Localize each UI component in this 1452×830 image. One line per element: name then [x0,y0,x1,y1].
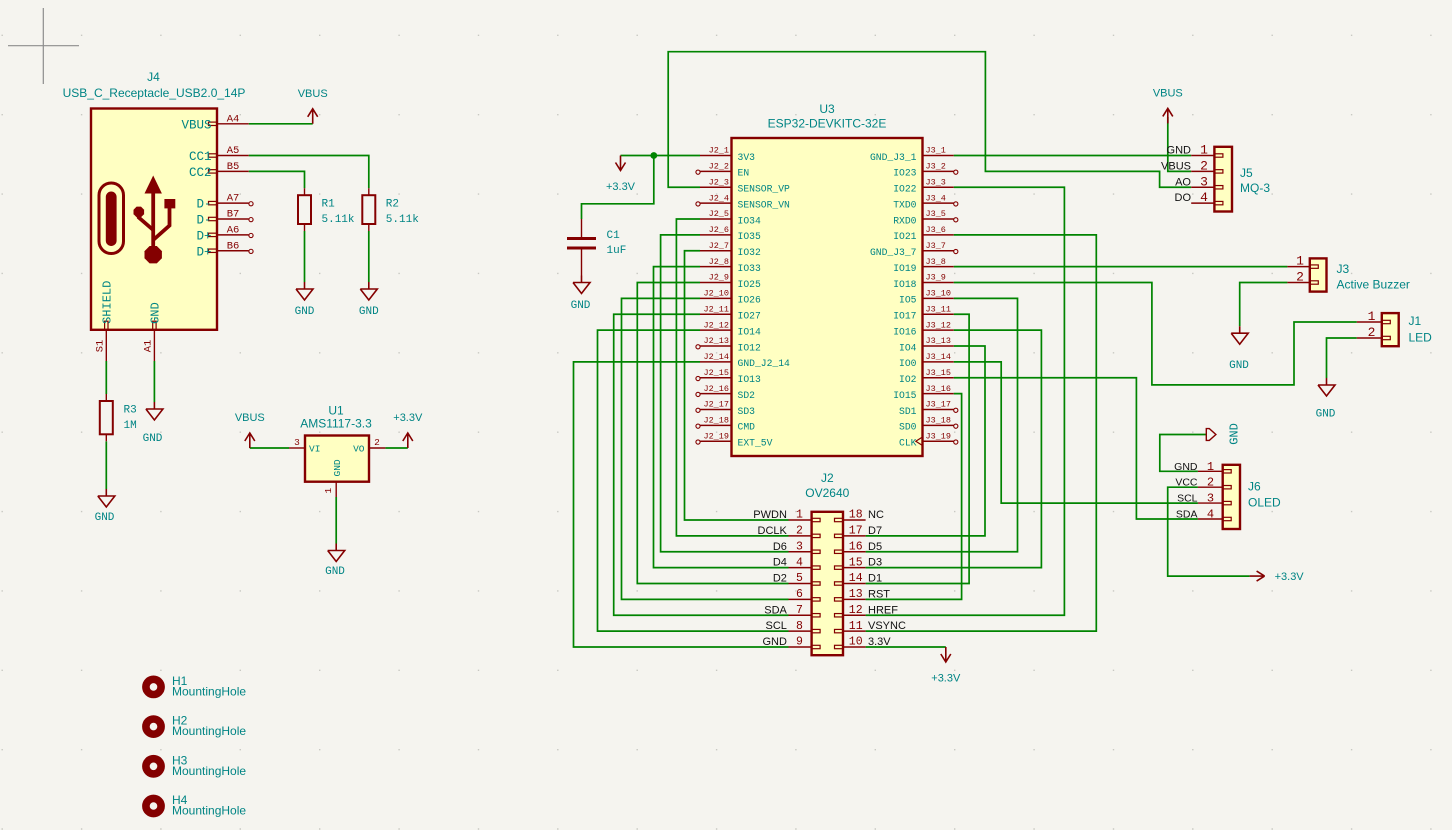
svg-text:J2_11: J2_11 [703,304,729,314]
U3 pin J3_6 IO21 [923,234,954,236]
svg-text:1: 1 [1368,309,1376,324]
J2 pin 4 D4 [789,567,812,569]
U3 pin J2_12 IO14 [700,329,732,331]
svg-text:GND: GND [1174,461,1198,473]
svg-text:EXT_5V: EXT_5V [738,438,773,449]
svg-text:R1: R1 [322,199,336,211]
svg-text:1: 1 [796,509,803,522]
wire OLED VCC to +3.3V [1168,487,1250,576]
svg-text:4: 4 [1207,508,1214,522]
svg-text:J3_18: J3_18 [926,416,952,426]
svg-text:J3_1: J3_1 [926,146,946,156]
wire S1 to R3 [105,361,107,394]
svg-text:D2: D2 [773,573,787,585]
svg-text:2: 2 [1200,158,1208,173]
svg-text:RXD0: RXD0 [893,215,916,226]
svg-text:OV2640: OV2640 [805,486,849,500]
svg-text:J4: J4 [147,70,160,84]
wire IO4 to OV2640 D7 [866,346,985,536]
U3 pin J3_7 GND_J3_7 [923,250,954,252]
wire A1 to GND [153,361,155,402]
svg-text:GND_J3_1: GND_J3_1 [870,152,917,163]
U3 pin J3_2 IO23 [923,170,954,172]
svg-text:14: 14 [849,572,863,585]
U3 pin J3_5 RXD0 [923,218,954,220]
svg-text:J2_15: J2_15 [703,368,729,378]
J2 pin 13 RST [843,598,866,600]
svg-text:10: 10 [849,636,863,649]
svg-text:B7: B7 [227,209,240,221]
svg-text:MountingHole: MountingHole [172,764,246,778]
svg-text:15: 15 [849,556,863,569]
svg-text:J3_2: J3_2 [926,162,946,172]
svg-text:J2: J2 [821,471,834,485]
svg-text:IO2: IO2 [899,374,917,385]
svg-text:J2_9: J2_9 [709,273,729,283]
svg-text:LED: LED [1409,331,1433,345]
U3 pin J3_13 IO4 [923,345,954,347]
mounting hole H2 [146,719,161,734]
svg-text:VSYNC: VSYNC [868,620,906,632]
U3 pin J2_13 IO12 [700,345,732,347]
svg-text:8: 8 [796,620,803,633]
svg-text:CLK: CLK [899,438,917,449]
U3 pin J2_5 IO34 [700,218,732,220]
resistor R2 5.11k [368,188,370,231]
svg-text:J3_11: J3_11 [926,304,952,314]
U3 pin J2_2 EN [700,170,732,172]
svg-text:J3_7: J3_7 [926,241,946,251]
connector J2 OV2640 [812,512,843,655]
svg-text:J2_18: J2_18 [703,416,729,426]
svg-text:J3_16: J3_16 [926,384,952,394]
svg-text:J3_13: J3_13 [926,336,952,346]
svg-text:GND_J3_7: GND_J3_7 [870,247,917,258]
svg-text:IO25: IO25 [738,279,761,290]
svg-text:IO23: IO23 [893,168,916,179]
svg-text:VBUS: VBUS [298,88,328,100]
svg-text:VBUS: VBUS [181,118,211,132]
svg-text:IO16: IO16 [893,326,916,337]
svg-text:IO5: IO5 [899,295,917,306]
svg-text:17: 17 [849,525,863,538]
J4 usb-c pill icon [99,183,124,254]
U3 pin J2_15 IO13 [700,377,732,379]
J2 pin 8 SCL [789,630,812,632]
J4 pin A5 CC1 [217,155,249,157]
U3 pin J2_11 IO27 [700,313,732,315]
resistor R1 5.11k [304,188,306,231]
svg-text:PWDN: PWDN [753,509,787,521]
svg-text:D+: D+ [196,245,211,259]
svg-text:D+: D+ [196,229,211,243]
svg-text:GND: GND [148,302,162,324]
wire IO17 to OV2640 D1 [866,314,970,583]
svg-text:1: 1 [323,488,334,494]
wire 3V3 junction to C1 [582,156,654,220]
svg-text:3: 3 [1207,492,1214,506]
svg-text:5.11k: 5.11k [386,214,419,226]
wire GND_J2_14 to OV2640 GND [574,362,789,647]
U3 pin J3_9 IO18 [923,282,954,284]
global label GND at OLED [1206,429,1216,441]
power VBUS at J5 [1163,108,1173,123]
svg-text:GND: GND [1229,360,1249,372]
U3 pin J2_17 SD3 [700,409,732,411]
J4 pin S1 SHIELD [105,330,107,361]
svg-text:IO27: IO27 [738,311,761,322]
svg-text:J2_1: J2_1 [709,146,729,156]
J4 usb trident icon [139,186,170,255]
J2 pin 5 D2 [789,583,812,585]
svg-text:VBUS: VBUS [1161,160,1191,172]
svg-text:MountingHole: MountingHole [172,724,246,738]
J2 pin 7 SDA [789,614,812,616]
U1 pin 3 VI [289,447,305,449]
wire IO0 to OLED SCL [954,362,1198,503]
svg-text:EN: EN [738,168,750,179]
ground below R3 [98,489,115,507]
svg-text:9: 9 [796,636,803,649]
U3 pin J2_10 IO26 [700,297,732,299]
svg-text:IO12: IO12 [738,342,761,353]
svg-text:J5: J5 [1240,166,1253,180]
svg-text:VO: VO [353,443,365,454]
U3 pin J2_1 3V3 [700,155,732,157]
wire CC1 to R2 [249,156,369,189]
J6 pin 4 SDA [1198,518,1223,520]
J2 pin 1 PWDN [789,519,812,521]
svg-text:U3: U3 [819,102,835,116]
svg-text:GND: GND [359,306,379,318]
svg-text:18: 18 [849,509,863,522]
svg-text:OLED: OLED [1248,496,1281,510]
svg-text:SD0: SD0 [899,422,917,433]
U3 pin J3_1 GND_J3_1 [923,155,954,157]
svg-text:VI: VI [309,443,320,454]
power +3.3V at U1 VO [403,433,413,448]
svg-text:GND: GND [1228,423,1242,445]
svg-text:B5: B5 [227,161,240,173]
ground below LED [1318,378,1335,396]
U1 pin 2 VO [369,447,385,449]
svg-text:+3.3V: +3.3V [606,181,636,193]
wire +3.3V to ESP32 3V3 [621,155,701,157]
svg-text:CC1: CC1 [189,150,212,164]
svg-text:SDA: SDA [764,604,787,616]
wire IO15 to OV2640 RST [866,394,962,600]
svg-text:J3_15: J3_15 [926,368,952,378]
regulator U1 AMS1117-3.3 [305,436,369,482]
wire IO32 to OV2640 PWDN [685,251,789,520]
connector J3 Active Buzzer [1310,258,1327,291]
J5 pin 2 VBUS [1191,170,1214,172]
svg-text:J2_8: J2_8 [709,257,729,267]
svg-text:DCLK: DCLK [758,525,788,537]
U3 pin J2_6 IO35 [700,234,732,236]
power +3.3V at OLED VCC [1250,571,1265,581]
svg-text:RST: RST [868,588,890,600]
svg-text:11: 11 [849,620,863,633]
U3 pin J3_8 IO19 [923,266,954,268]
U3 pin J2_9 IO25 [700,282,732,284]
svg-text:VBUS: VBUS [235,412,265,424]
svg-text:GND: GND [325,566,345,578]
svg-text:IO17: IO17 [893,311,916,322]
svg-text:J3_8: J3_8 [926,257,946,267]
svg-text:J1: J1 [1409,314,1422,328]
wire IO25 to OV2640 D2 [637,283,788,584]
J2 pin 9 GND [789,646,812,648]
svg-text:A6: A6 [227,224,240,236]
svg-text:GND: GND [762,636,787,648]
svg-text:D1: D1 [868,573,882,585]
svg-text:TXD0: TXD0 [893,199,916,210]
svg-text:IO22: IO22 [893,184,916,195]
wire GND_J3_1 to J5 pin1 [954,155,1191,157]
svg-text:3: 3 [1200,174,1208,189]
svg-text:J3_14: J3_14 [926,352,952,362]
svg-text:IO14: IO14 [738,326,761,337]
svg-text:+3.3V: +3.3V [931,673,961,685]
svg-text:2: 2 [1368,325,1376,340]
ground below C1 [573,276,590,294]
connector J5 MQ-3 [1214,147,1232,212]
svg-text:1: 1 [1207,460,1214,474]
wire CC2 to R1 [249,171,305,188]
U3 pin J2_8 IO33 [700,266,732,268]
wire IO34 to OV2640 DCLK [676,219,788,536]
svg-text:3: 3 [796,540,803,553]
U1 pin 1 GND [335,482,337,497]
mounting hole H1 [146,679,161,694]
svg-text:USB_C_Receptacle_USB2.0_14P: USB_C_Receptacle_USB2.0_14P [63,86,246,100]
J1 pin 2 [1357,337,1382,339]
svg-text:GND: GND [1316,409,1336,421]
connector J1 LED [1382,313,1399,346]
U3 pin J3_14 IO0 [923,361,954,363]
J4 pin B5 CC2 [217,170,249,172]
svg-text:IO34: IO34 [738,215,761,226]
wire VBUS to U1 VI [250,447,289,449]
svg-text:1: 1 [1200,143,1208,158]
svg-text:2: 2 [374,437,380,448]
svg-text:J3_9: J3_9 [926,273,946,283]
svg-text:J3_6: J3_6 [926,225,946,235]
svg-text:13: 13 [849,588,863,601]
svg-text:VCC: VCC [1175,477,1198,489]
wire R3 to GND [105,441,107,489]
svg-text:2: 2 [1296,270,1304,285]
svg-text:4: 4 [1200,190,1208,205]
svg-text:J2_3: J2_3 [709,177,729,187]
power VBUS at U1 VI [245,433,255,448]
svg-text:VBUS: VBUS [1153,87,1183,99]
svg-text:IO18: IO18 [893,279,916,290]
svg-text:SENSOR_VN: SENSOR_VN [738,199,791,210]
wire R2 to GND [368,231,370,282]
svg-text:J3_4: J3_4 [926,193,946,203]
svg-text:MountingHole: MountingHole [172,685,246,699]
svg-text:D-: D- [196,214,211,228]
svg-text:SDA: SDA [1176,509,1198,521]
J4 pin A7 D- [217,202,249,204]
svg-text:GND: GND [571,300,591,312]
svg-text:A4: A4 [227,113,240,125]
svg-text:SHIELD: SHIELD [100,281,114,324]
svg-text:7: 7 [796,604,803,617]
U3 pin J3_16 IO15 [923,393,954,395]
J3 pin 1 [1287,266,1309,268]
svg-text:IO19: IO19 [893,263,916,274]
wire SENSOR_VP to J5 AO [668,52,1191,188]
svg-text:IO32: IO32 [738,247,761,258]
svg-text:R3: R3 [124,405,137,417]
svg-text:C1: C1 [607,230,621,242]
J2 pin 12 HREF [843,614,866,616]
wire R1 to GND [304,231,306,282]
svg-text:5: 5 [796,572,803,585]
wire IO5 to OV2640 D5 [866,298,1018,551]
U3 pin J3_4 TXD0 [923,202,954,204]
J4 pin A4 VBUS [217,123,249,125]
svg-text:IO33: IO33 [738,263,761,274]
svg-text:MQ-3: MQ-3 [1240,181,1270,195]
wire IO33 to OV2640 D4 [654,267,789,568]
ground below R1 [296,282,313,300]
J4 pin B7 D- [217,218,249,220]
svg-text:J3_12: J3_12 [926,320,952,330]
wire IO27 to OV2640 SDA [614,314,789,615]
wire IO16 to OV2640 D3 [866,330,1042,568]
wire OLED GND to label [1160,435,1207,472]
wire U1 VO to +3.3V [385,447,407,449]
ground below R2 [360,282,377,300]
svg-text:GND: GND [295,306,315,318]
svg-text:J3_5: J3_5 [926,209,946,219]
capacitor C1 1uF [581,219,583,276]
J6 pin 3 SCL [1198,502,1223,504]
svg-text:SCL: SCL [765,620,786,632]
svg-text:D4: D4 [773,557,787,569]
wire IO35 to OV2640 D6 [661,235,789,552]
svg-text:S1: S1 [94,340,106,353]
svg-text:IO35: IO35 [738,231,761,242]
svg-text:+3.3V: +3.3V [393,412,423,424]
svg-text:HREF: HREF [868,604,898,616]
svg-text:J2_4: J2_4 [709,193,729,203]
svg-text:1M: 1M [124,420,137,432]
J3 pin 2 [1287,282,1309,284]
svg-text:J2_19: J2_19 [703,431,729,441]
U3 pin J2_16 SD2 [700,393,732,395]
svg-text:J3_19: J3_19 [926,431,952,441]
svg-text:SENSOR_VP: SENSOR_VP [738,184,791,195]
svg-text:J2_7: J2_7 [709,241,729,251]
svg-text:16: 16 [849,540,863,553]
svg-text:GND: GND [143,433,163,445]
svg-text:R2: R2 [386,199,399,211]
connector J6 OLED [1223,465,1240,529]
svg-text:U1: U1 [328,404,344,418]
power +3.3V at ESP32 3V3 [616,156,626,171]
ic U3 ESP32-DEVKITC-32E [732,138,923,456]
svg-text:MountingHole: MountingHole [172,804,246,818]
J4 pin A6 D+ [217,234,249,236]
svg-text:IO0: IO0 [899,358,917,369]
svg-text:J2_16: J2_16 [703,384,729,394]
svg-text:Active Buzzer: Active Buzzer [1337,278,1410,292]
svg-text:AO: AO [1175,176,1191,188]
J5 pin 4 DO [1191,202,1214,204]
J2 pin 16 D5 [843,551,866,553]
svg-text:IO21: IO21 [893,231,916,242]
J2 pin 6 NC [789,598,812,600]
power VBUS at J4 [308,109,318,124]
ground below buzzer [1231,326,1248,344]
U3 pin J3_17 SD1 [923,409,954,411]
J2 pin 2 DCLK [789,535,812,537]
svg-text:4: 4 [796,556,803,569]
svg-text:2: 2 [1207,476,1214,490]
svg-text:3: 3 [294,437,300,448]
J2 pin 18 NC [843,519,866,521]
svg-text:IO13: IO13 [738,374,761,385]
wire IO26 to OV2640 pin6 [622,298,789,599]
U3 pin J2_3 SENSOR_VP [700,186,732,188]
svg-text:6: 6 [796,588,803,601]
power +3.3V at OV2640 pin10 [941,647,951,662]
svg-text:GND_J2_14: GND_J2_14 [738,358,791,369]
U3 pin J3_11 IO17 [923,313,954,315]
J2 pin 3 D6 [789,551,812,553]
svg-text:IO15: IO15 [893,390,916,401]
svg-text:SD3: SD3 [738,406,756,417]
U3 pin J3_19 CLK [923,440,954,442]
ground below U1 [328,544,345,562]
U3 pin J3_18 SD0 [923,424,954,426]
J2 pin 14 D1 [843,583,866,585]
svg-text:J2_10: J2_10 [703,289,729,299]
wire IO14 to OV2640 SCL [598,330,789,631]
svg-text:D6: D6 [773,541,787,553]
svg-text:D-: D- [196,198,211,212]
svg-text:J2_13: J2_13 [703,336,729,346]
svg-text:GND: GND [95,512,115,524]
svg-text:SD1: SD1 [899,406,917,417]
wire IO2 to OLED SDA [954,378,1198,519]
wire IO19 to buzzer pin1 [954,266,1288,268]
svg-text:A1: A1 [142,340,154,353]
junction 3V3 node [650,152,657,159]
svg-text:J3_17: J3_17 [926,400,952,410]
svg-text:ESP32-DEVKITC-32E: ESP32-DEVKITC-32E [768,117,887,131]
wire IO22 to OV2640 HREF [866,187,1065,615]
wire buzzer pin2 to GND [1240,283,1288,327]
svg-text:J3_3: J3_3 [926,177,946,187]
wire VBUS A4 to power symbol [249,123,313,125]
connector J4 USB_C_Receptacle_USB2.0_14P [91,109,217,330]
svg-text:CC2: CC2 [189,166,212,180]
wire LED pin2 to GND [1327,338,1357,378]
svg-text:D5: D5 [868,541,882,553]
svg-text:SD2: SD2 [738,390,756,401]
U3 pin J2_19 EXT_5V [700,440,732,442]
U3 pin J2_14 GND_J2_14 [700,361,732,363]
U3 pin J3_10 IO5 [923,297,954,299]
J1 pin 1 [1357,321,1382,323]
mounting hole H4 [146,798,161,813]
